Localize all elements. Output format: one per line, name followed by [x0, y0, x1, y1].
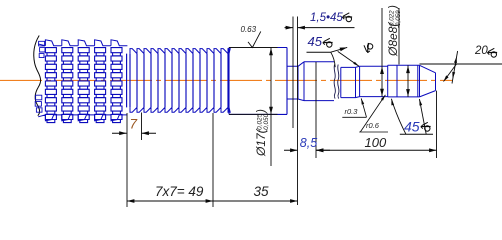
svg-text:7x7= 49: 7x7= 49 [155, 184, 204, 199]
svg-text:8,5: 8,5 [300, 136, 317, 150]
svg-text:1,5•45: 1,5•45 [310, 12, 343, 24]
svg-text:-0,059: -0,059 [395, 10, 402, 28]
svg-text:35: 35 [254, 184, 270, 199]
svg-text:20: 20 [474, 45, 488, 57]
svg-text:r0.3: r0.3 [345, 107, 359, 116]
svg-text:100: 100 [365, 135, 387, 150]
svg-text:7: 7 [130, 117, 138, 132]
svg-text:45: 45 [308, 34, 323, 49]
svg-text:0.63: 0.63 [241, 25, 257, 34]
svg-text:45: 45 [404, 119, 420, 135]
svg-text:r0.6: r0.6 [366, 121, 380, 130]
svg-text:-0,050: -0,050 [263, 113, 270, 132]
